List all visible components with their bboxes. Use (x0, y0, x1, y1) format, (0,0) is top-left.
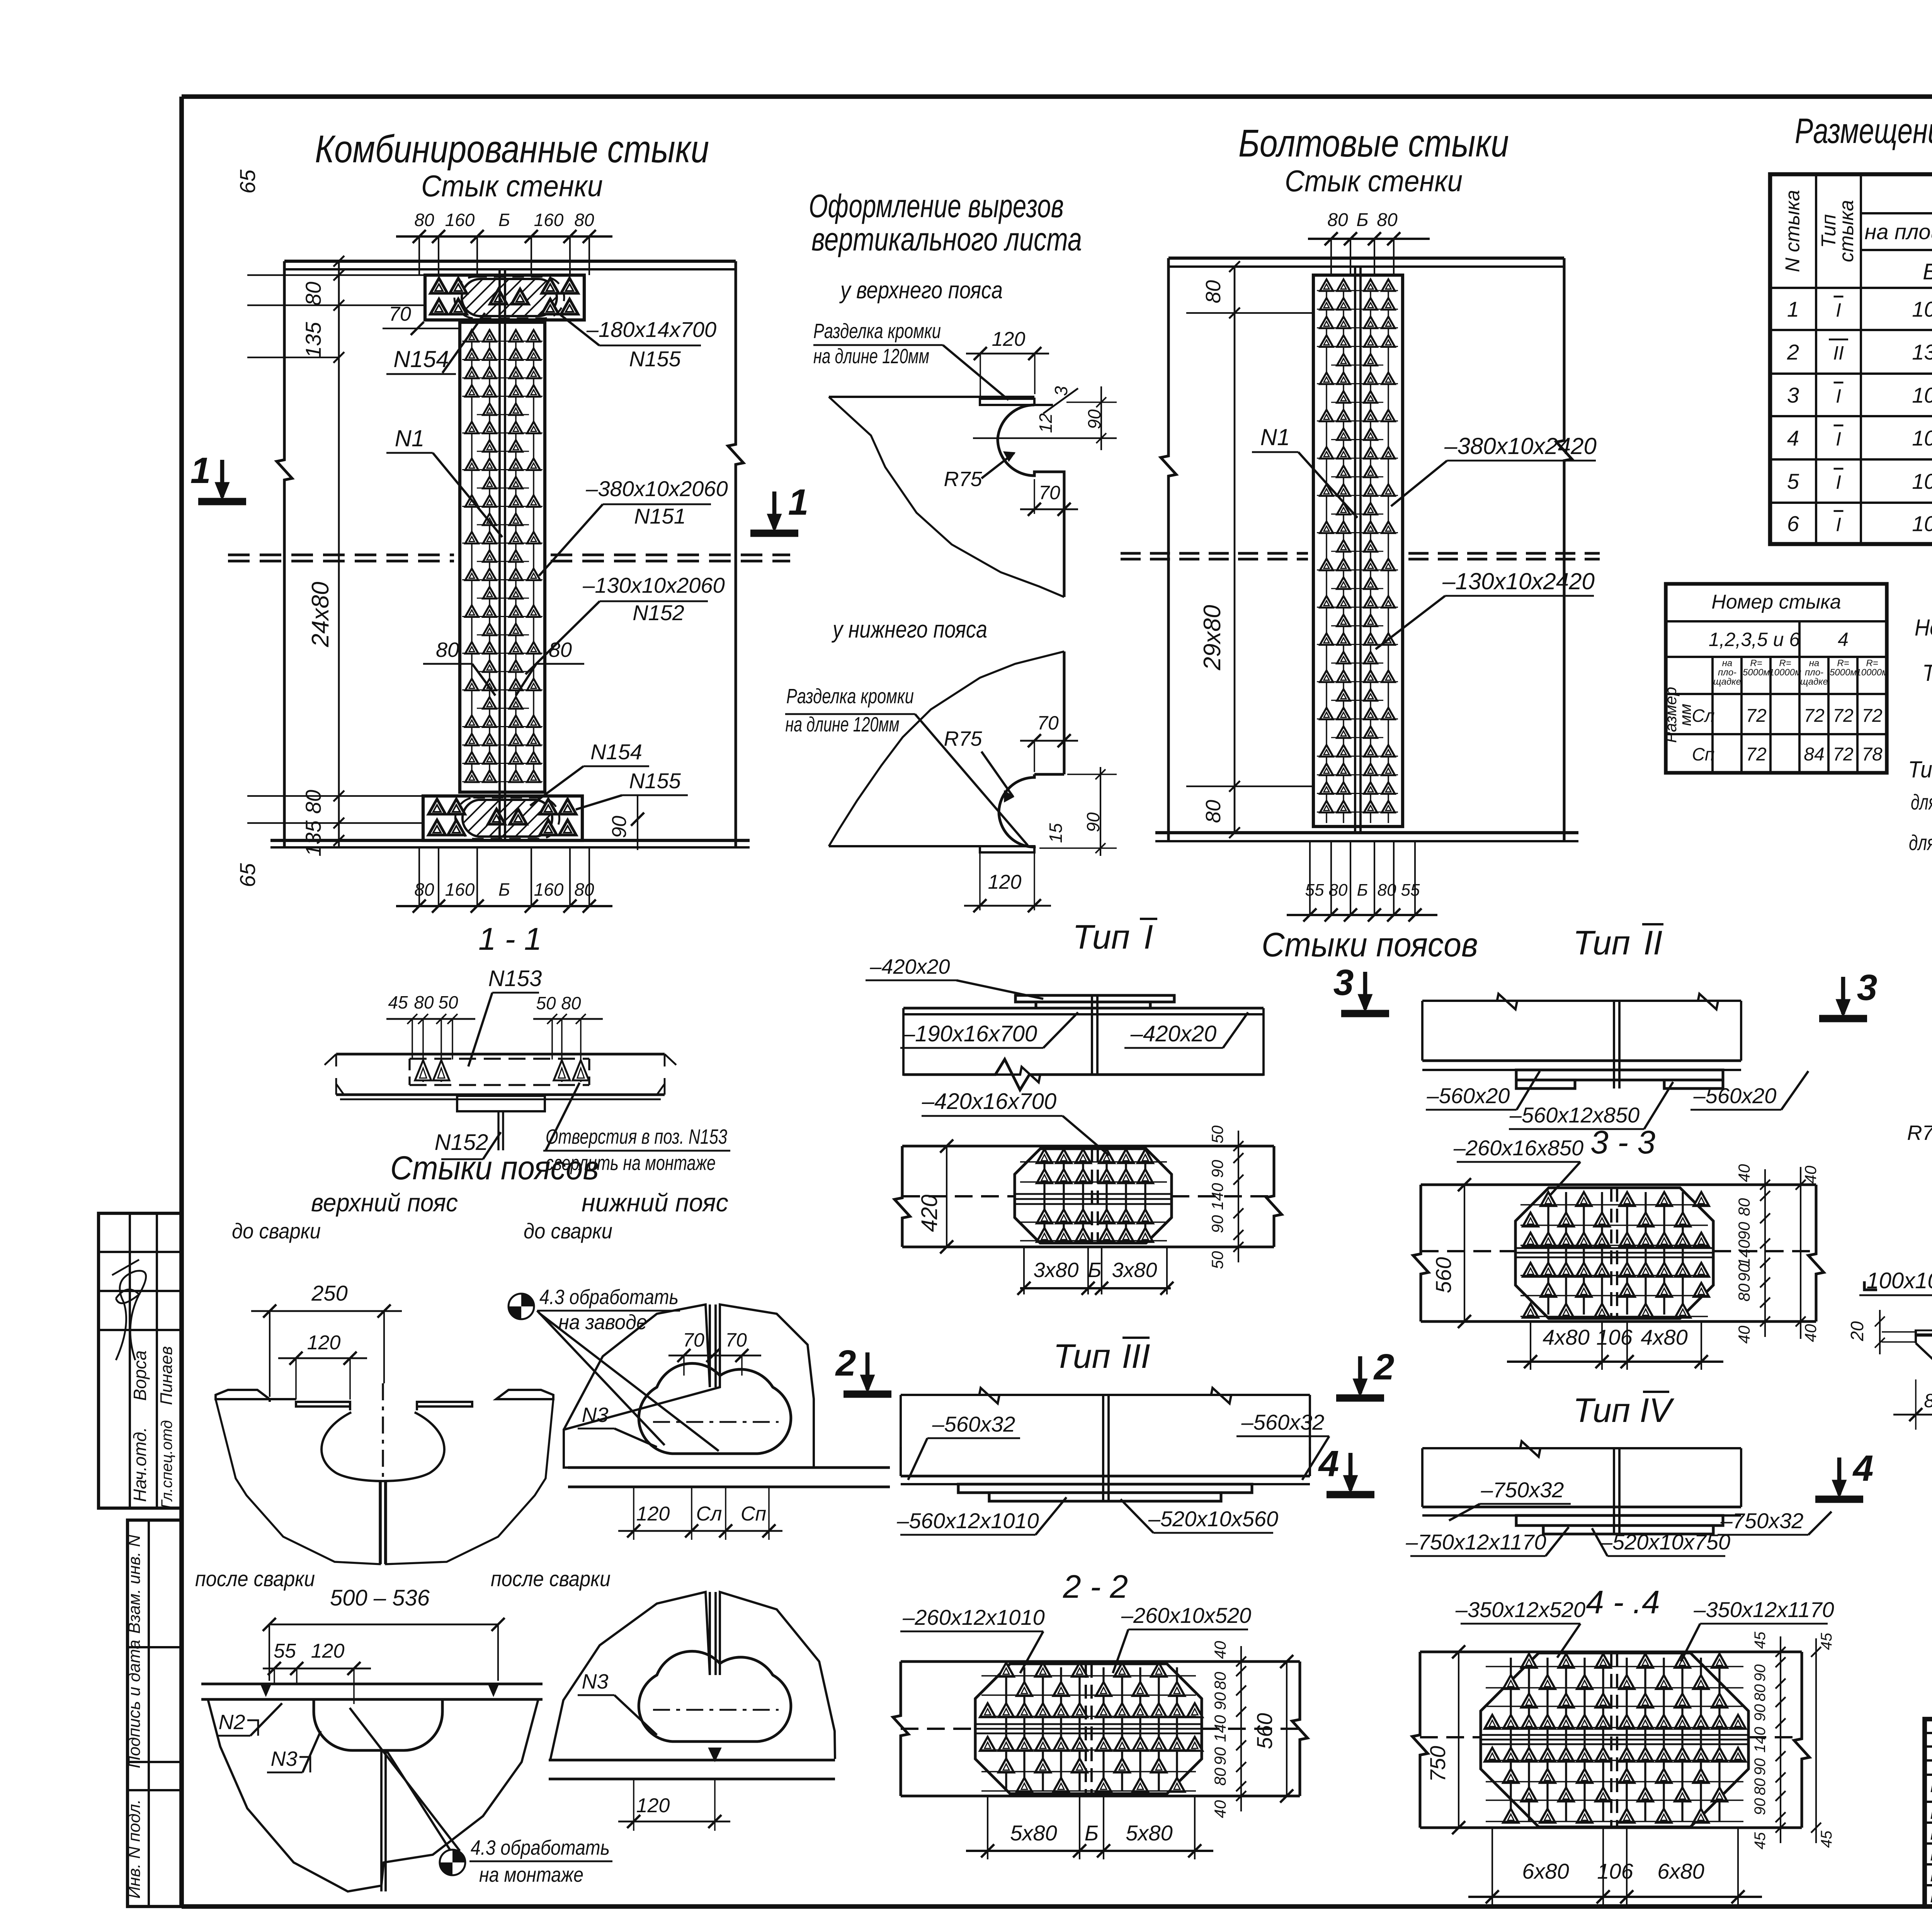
svg-text:80: 80 (436, 638, 459, 662)
3-3 plan: right dims (1764, 1169, 1766, 1337)
svg-text:500 – 536: 500 – 536 (330, 1585, 430, 1611)
svg-text:15: 15 (1046, 823, 1066, 843)
svg-text:70: 70 (725, 1329, 747, 1351)
svg-text:72: 72 (1746, 706, 1766, 726)
table: Номер стыка / Размер мм (1666, 584, 1887, 773)
svg-text:40: 40 (1211, 1641, 1229, 1659)
svg-text:45: 45 (388, 992, 408, 1012)
svg-text:90: 90 (1208, 1160, 1226, 1178)
svg-text:N3: N3 (582, 1670, 608, 1693)
lower belt before welding: drawing (564, 1304, 814, 1468)
svg-text:80: 80 (1211, 1767, 1229, 1786)
svg-text:72: 72 (1833, 706, 1853, 726)
svg-text:–420х16х700: –420х16х700 (922, 1089, 1056, 1114)
3-3 plan: bottom dims 4x80 106 4x80 (1507, 1361, 1723, 1363)
svg-text:70: 70 (389, 303, 411, 325)
svg-text:Б: Б (1356, 210, 1368, 230)
svg-text:R73: R73 (1907, 1121, 1932, 1145)
svg-text:5х80: 5х80 (1010, 1821, 1057, 1845)
svg-text:1 - 1: 1 - 1 (478, 922, 542, 957)
section marker 1 right (750, 530, 798, 537)
svg-text:Изм.: Изм. (1930, 1777, 1932, 1796)
svg-text:140: 140 (1211, 1715, 1229, 1742)
svg-text:1,2,3,5 и 6: 1,2,3,5 и 6 (1709, 629, 1800, 650)
svg-text:Сл: Сл (696, 1503, 722, 1525)
svg-text:на монтаже: на монтаже (479, 1863, 583, 1886)
svg-text:–380х10х2420: –380х10х2420 (1444, 433, 1597, 459)
svg-text:Стык стенки: Стык стенки (421, 169, 603, 203)
svg-text:–180х14х700: –180х14х700 (586, 317, 716, 342)
svg-text:80: 80 (1211, 1672, 1229, 1690)
svg-text:Нач.отд.: Нач.отд. (130, 1427, 150, 1502)
svg-text:4х80: 4х80 (1543, 1325, 1589, 1349)
svg-text:72: 72 (1746, 744, 1766, 765)
3-3 plan: bolt field (1520, 1192, 1709, 1318)
svg-text:R75: R75 (944, 727, 982, 750)
svg-text:50: 50 (438, 992, 458, 1012)
svg-text:–560х20: –560х20 (1693, 1083, 1777, 1108)
svg-text:у нижнего пояса: у нижнего пояса (832, 616, 987, 643)
svg-text:Б: Б (498, 879, 510, 900)
Тип I side view: beam and splice plates (903, 1059, 1264, 1090)
svg-text:Б: Б (1357, 881, 1368, 900)
svg-text:Ворса: Ворса (130, 1350, 150, 1401)
svg-text:N154: N154 (590, 740, 642, 764)
svg-text:Номер стыка: Номер стыка (1915, 615, 1932, 641)
svg-text:90: 90 (1735, 1222, 1753, 1240)
Тип I plan: bottom dims 3x80 Б 3x80 (1020, 1287, 1171, 1289)
svg-text:Тип: Тип (1053, 1337, 1111, 1375)
combined joint: web joint gap lines (498, 270, 501, 840)
2-2 plan view (901, 1660, 1300, 1663)
svg-text:4: 4 (1318, 1443, 1339, 1484)
svg-text:–190х16х700: –190х16х700 (902, 1021, 1037, 1046)
svg-text:106: 106 (1912, 297, 1932, 321)
svg-text:80: 80 (1202, 800, 1225, 823)
svg-text:Б: Б (1923, 259, 1932, 284)
svg-text:50: 50 (1208, 1125, 1226, 1143)
svg-text:80: 80 (561, 993, 581, 1013)
combined joint: beam outline with break lines (277, 261, 292, 847)
svg-text:Подпись и дата: Подпись и дата (125, 1640, 144, 1769)
svg-text:90: 90 (1752, 1664, 1769, 1682)
svg-text:50: 50 (1208, 1251, 1226, 1269)
svg-text:–520х10х750: –520х10х750 (1600, 1530, 1730, 1554)
4-4 plan: left dim 750 (1425, 1746, 1450, 1782)
svg-text:80: 80 (1735, 1198, 1753, 1216)
upper belt before welding: center joint (382, 1383, 384, 1479)
svg-text:–260х12х1010: –260х12х1010 (902, 1605, 1044, 1629)
section marker 4 right (1815, 1496, 1863, 1503)
svg-text:80: 80 (1327, 210, 1348, 230)
svg-text:80: 80 (301, 790, 325, 814)
section marker 4 left (1327, 1491, 1374, 1498)
svg-text:–560х20: –560х20 (1427, 1083, 1510, 1108)
svg-text:Гл. инж. пр: Гл. инж. пр (1930, 1804, 1932, 1823)
N153 detail: 20 dim (1847, 1321, 1867, 1342)
svg-text:I: I (1836, 299, 1841, 321)
upper cutout detail drawing (829, 396, 1034, 398)
svg-text:Тип: Тип (1573, 1391, 1630, 1429)
combined joint: bottom cover plate N154/N155 with slotted hatch (423, 796, 582, 840)
svg-text:40: 40 (1211, 1800, 1229, 1818)
svg-text:I: I (1836, 385, 1841, 407)
bolted joint: top dimension chain 80 Б 80 (1308, 238, 1430, 240)
section 1-1: splice bolts (422, 1060, 424, 1082)
svg-text:вертикального листа: вертикального листа (811, 221, 1082, 257)
svg-text:N1: N1 (395, 425, 425, 451)
svg-text:–260х10х520: –260х10х520 (1121, 1603, 1251, 1628)
svg-text:Тип: Тип (1573, 923, 1630, 962)
svg-text:78: 78 (1862, 744, 1883, 765)
svg-text:140: 140 (1752, 1727, 1769, 1753)
svg-text:до сварки: до сварки (524, 1219, 612, 1243)
svg-text:–420х20: –420х20 (869, 955, 950, 978)
svg-text:5: 5 (1787, 469, 1799, 493)
Тип I plan: center gap dashed (1091, 1149, 1093, 1243)
svg-text:–350х12х520: –350х12х520 (1455, 1597, 1585, 1622)
2-2 plan: right dims and 560 (1240, 1646, 1242, 1811)
svg-text:24х80: 24х80 (307, 582, 334, 648)
svg-text:2: 2 (1787, 340, 1799, 364)
combined joint: top cover plate N155 with slotted hatch (425, 275, 584, 320)
svg-text:72: 72 (1804, 706, 1824, 726)
svg-text:Оформление вырезов: Оформление вырезов (809, 188, 1064, 224)
Тип I plan: middle joint band (1015, 1193, 1172, 1195)
combined joint: web bolt field (462, 330, 543, 782)
svg-text:80: 80 (549, 638, 572, 662)
svg-text:для блоков 10.5м: для блоков 10.5м (1909, 830, 1932, 855)
svg-text:3х80: 3х80 (1033, 1259, 1078, 1282)
svg-text:–420х20: –420х20 (1130, 1021, 1217, 1046)
svg-text:250: 250 (311, 1281, 347, 1305)
svg-text:90: 90 (1211, 1692, 1229, 1710)
svg-text:Тип: Тип (1073, 918, 1130, 956)
svg-text:160: 160 (445, 879, 475, 900)
N153 detail: 80 dim left (1915, 1379, 1917, 1430)
bolted joint: left dimension line (1234, 267, 1236, 833)
svg-text:4: 4 (1852, 1448, 1874, 1489)
svg-text:50: 50 (536, 993, 556, 1013)
svg-text:на площадке: на площадке (1864, 219, 1932, 244)
svg-text:4: 4 (1787, 426, 1799, 450)
signature scribbles (116, 1271, 146, 1360)
svg-text:80: 80 (1752, 1778, 1769, 1796)
svg-text:II: II (1644, 923, 1663, 962)
combined joint: 70 dimension (383, 328, 460, 329)
bolted joint: beam outline with break lines (1161, 258, 1176, 841)
section marker 2 right (1336, 1395, 1384, 1402)
svg-text:45: 45 (1818, 1633, 1835, 1650)
svg-text:90: 90 (1752, 1758, 1769, 1776)
upper belt after welding: drawing (201, 1682, 543, 1685)
bolted joint: web splice plates (1313, 275, 1403, 827)
svg-text:3: 3 (1333, 962, 1354, 1003)
svg-text:до сварки: до сварки (232, 1219, 321, 1243)
svg-text:N3: N3 (582, 1403, 608, 1427)
upper belt before welding: weld oval (321, 1412, 444, 1481)
4-4 plan: bottom dims 6x80 106 6x80 (1468, 1896, 1762, 1898)
svg-text:70: 70 (683, 1329, 704, 1351)
svg-text:160: 160 (534, 210, 564, 230)
svg-text:45: 45 (1752, 1631, 1769, 1649)
N153 detail: angle label (1864, 1281, 1877, 1290)
svg-text:560: 560 (1252, 1713, 1277, 1749)
svg-text:Проверил: Проверил (1930, 1866, 1932, 1885)
svg-text:I: I (1836, 428, 1841, 450)
svg-text:80: 80 (574, 210, 594, 230)
section marker 2 left (844, 1391, 891, 1398)
svg-text:84: 84 (1804, 744, 1824, 765)
svg-text:80: 80 (1924, 1390, 1932, 1412)
section marker 3 right (1819, 1015, 1867, 1022)
svg-text:R75: R75 (944, 468, 982, 491)
svg-text:6: 6 (1787, 512, 1799, 536)
svg-text:45: 45 (1752, 1832, 1769, 1849)
Тип II side view (1422, 1000, 1741, 1002)
svg-text:у верхнего пояса: у верхнего пояса (839, 277, 1003, 304)
svg-text:Тип стыка: Тип стыка (1908, 757, 1932, 782)
svg-text:65: 65 (235, 863, 260, 887)
combined joint: web splice plates N151/N152 (460, 322, 545, 792)
svg-text:80: 80 (574, 879, 594, 900)
svg-text:N1: N1 (1260, 424, 1290, 450)
svg-text:I: I (1836, 514, 1841, 536)
svg-text:160: 160 (534, 879, 564, 900)
svg-text:N2: N2 (218, 1711, 245, 1734)
svg-text:70: 70 (1037, 712, 1059, 734)
svg-text:4: 4 (1838, 629, 1849, 650)
svg-text:Сп: Сп (1692, 744, 1715, 764)
svg-text:N153: N153 (488, 966, 542, 991)
svg-text:Б: Б (498, 210, 510, 230)
2-2 plan: bottom dims 5x80 Б 5x80 (966, 1850, 1213, 1852)
section 1-1: flange bar (336, 1053, 665, 1055)
Тип I plan: left dim 420 (946, 1146, 947, 1247)
combined joint: 90 dimension bottom right (637, 796, 638, 850)
Тип I plan view: beam with splice octagon (902, 1145, 1274, 1147)
lower belt after welding: drawing (550, 1592, 835, 1760)
svg-text:Б: Б (1085, 1821, 1099, 1845)
svg-text:N стыка: N стыка (1782, 190, 1804, 272)
svg-text:90: 90 (1752, 1704, 1769, 1721)
svg-text:90: 90 (1752, 1798, 1769, 1815)
svg-text:90: 90 (608, 816, 631, 838)
svg-text:420: 420 (917, 1195, 942, 1232)
svg-text:1: 1 (788, 482, 809, 523)
svg-text:120: 120 (636, 1503, 670, 1525)
svg-text:106: 106 (1912, 469, 1932, 493)
combined joint: left dimension lines (338, 261, 340, 847)
svg-text:1: 1 (1787, 297, 1799, 321)
svg-text:Гл.спец.отд: Гл.спец.отд (158, 1420, 175, 1509)
svg-text:120: 120 (988, 871, 1022, 893)
svg-text:IV: IV (1639, 1391, 1674, 1429)
bolted joint: beam axis dashed line (1121, 552, 1308, 554)
svg-text:135: 135 (301, 820, 325, 856)
svg-text:на длине 120мм: на длине 120мм (813, 345, 929, 368)
svg-text:55: 55 (274, 1640, 296, 1662)
bolted joint: web joint gap lines (1354, 267, 1356, 833)
svg-text:Б: Б (1088, 1259, 1101, 1282)
svg-text:2 - 2: 2 - 2 (1063, 1568, 1128, 1605)
4-4 plan: right dims (1780, 1636, 1781, 1843)
left stamp: upper signature block (99, 1213, 182, 1508)
svg-text:–130х10х2420: –130х10х2420 (1442, 568, 1595, 594)
svg-text:–560х32: –560х32 (1241, 1410, 1325, 1434)
svg-text:верхний пояс: верхний пояс (311, 1188, 458, 1217)
svg-text:–750х32: –750х32 (1481, 1478, 1564, 1502)
svg-text:29х80: 29х80 (1199, 605, 1226, 671)
svg-text:120: 120 (311, 1640, 345, 1662)
svg-text:4.3 обработать: 4.3 обработать (471, 1836, 610, 1859)
svg-text:Разделка кромки: Разделка кромки (786, 685, 914, 708)
svg-text:N154: N154 (393, 346, 449, 372)
svg-text:40: 40 (1801, 1324, 1820, 1342)
sheet frame (182, 94, 1932, 99)
svg-text:для блоков 21.0м: для блоков 21.0м (1911, 790, 1932, 814)
svg-text:80: 80 (1752, 1684, 1769, 1702)
svg-text:6х80: 6х80 (1657, 1859, 1704, 1883)
svg-text:40: 40 (1735, 1325, 1753, 1344)
svg-text:–260х16х850: –260х16х850 (1453, 1136, 1583, 1160)
section 1-1: hidden splice plate N153 dashed (410, 1058, 589, 1060)
svg-text:3: 3 (1787, 383, 1799, 407)
svg-text:–560х12х850: –560х12х850 (1509, 1103, 1639, 1127)
svg-text:Размещение рисок в накладках с: Размещение рисок в накладках с учетом ст… (1795, 111, 1932, 151)
svg-text:135: 135 (301, 321, 325, 358)
svg-text:–560х32: –560х32 (932, 1412, 1015, 1436)
svg-text:–750х32: –750х32 (1720, 1509, 1804, 1533)
3-3 plan: left dim 560 (1431, 1257, 1456, 1293)
svg-text:80: 80 (1735, 1283, 1753, 1301)
svg-text:–520х10х560: –520х10х560 (1148, 1507, 1278, 1531)
svg-text:560: 560 (1431, 1257, 1456, 1293)
Тип I plan: right dims 50 90 140 90 50 (1238, 1131, 1239, 1262)
svg-text:Стыки поясов: Стыки поясов (1262, 925, 1478, 964)
4-4 plan view (1420, 1650, 1802, 1653)
svg-text:Номер стыка: Номер стыка (1711, 591, 1841, 613)
svg-text:–560х12х1010: –560х12х1010 (896, 1509, 1039, 1533)
4-4 plan: bolt field (1485, 1654, 1746, 1823)
svg-text:на длине 120мм: на длине 120мм (786, 713, 900, 736)
title block: outer frame (1925, 1719, 1932, 1906)
lower cutout detail drawing (1063, 651, 1065, 774)
combined joint: top dimension chain 80 160 Б 160 80 (396, 235, 612, 238)
left stamp: lower attribute block (128, 1520, 182, 1906)
svg-text:N151: N151 (634, 504, 686, 528)
svg-text:Разраб.: Разраб. (1930, 1887, 1932, 1906)
svg-text:Разделка кромки: Разделка кромки (813, 320, 941, 343)
svg-text:Стыки поясов: Стыки поясов (390, 1150, 599, 1187)
svg-text:Взам. инв. N: Взам. инв. N (125, 1535, 144, 1634)
Тип III side view (901, 1394, 1310, 1396)
upper belt before welding: drawing (216, 1390, 270, 1399)
svg-text:20: 20 (1847, 1321, 1867, 1342)
svg-text:Сп: Сп (741, 1503, 766, 1525)
svg-text:140: 140 (1735, 1239, 1753, 1267)
svg-text:2: 2 (1373, 1347, 1395, 1388)
svg-text:N3: N3 (270, 1747, 297, 1770)
svg-text:I: I (1836, 471, 1841, 493)
Тип I plan: bolt field (1020, 1149, 1167, 1242)
svg-text:Стык стенки: Стык стенки (1285, 164, 1463, 198)
section marker 3 left (1341, 1010, 1389, 1017)
N153 detail: left angle piece (1915, 1330, 1932, 1332)
Тип IV side view (1422, 1447, 1741, 1449)
svg-text:90: 90 (1211, 1747, 1229, 1765)
svg-text:12: 12 (1036, 413, 1056, 433)
svg-text:160: 160 (445, 210, 475, 230)
svg-text:N155: N155 (629, 769, 681, 793)
combined joint: 24x80 label (307, 582, 334, 648)
combined joint: bottom dimension chain 80 160 Б 160 80 (396, 905, 612, 907)
svg-text:N155: N155 (629, 347, 681, 371)
svg-text:Отверстия в поз. N153: Отверстия в поз. N153 (546, 1125, 727, 1148)
svg-text:4х80: 4х80 (1641, 1325, 1687, 1349)
svg-text:3 - 3: 3 - 3 (1590, 1124, 1655, 1160)
svg-text:Комбинированные стыки: Комбинированные стыки (315, 128, 709, 171)
svg-text:55: 55 (1401, 881, 1420, 900)
svg-text:–750х12х1170: –750х12х1170 (1405, 1530, 1546, 1554)
svg-text:65: 65 (235, 169, 260, 194)
lower belt before welding: marks (509, 1294, 534, 1319)
svg-text:–380х10х2060: –380х10х2060 (585, 476, 728, 501)
svg-text:120: 120 (992, 328, 1026, 350)
svg-text:140: 140 (1208, 1183, 1226, 1210)
svg-text:90: 90 (1735, 1264, 1753, 1282)
svg-text:134: 134 (1912, 340, 1932, 364)
combined joint: beam axis dashed line (228, 553, 454, 556)
svg-text:после сварки: после сварки (195, 1566, 315, 1591)
svg-text:Болтовые стыки: Болтовые стыки (1238, 122, 1509, 165)
svg-text:–350х12х1170: –350х12х1170 (1693, 1597, 1834, 1622)
bolted joint: web bolt field staggered (1317, 279, 1398, 823)
svg-text:5х80: 5х80 (1126, 1821, 1172, 1845)
svg-text:II: II (1833, 342, 1844, 364)
svg-text:Нач.пр.гр.: Нач.пр.гр. (1930, 1825, 1932, 1844)
svg-text:80: 80 (1377, 210, 1398, 230)
svg-text:Пинаев: Пинаев (157, 1346, 176, 1405)
svg-text:нижний пояс: нижний пояс (582, 1188, 728, 1217)
svg-text:1: 1 (190, 450, 211, 491)
section 1-1: bottom plate N152 and web stub (457, 1096, 545, 1111)
3-3 plan view (1421, 1183, 1816, 1186)
svg-text:80: 80 (414, 992, 434, 1012)
svg-text:Тип стыка: Тип стыка (1922, 660, 1932, 686)
svg-text:100х10–800: 100х10–800 (1866, 1268, 1932, 1293)
svg-text:72: 72 (1862, 706, 1882, 726)
svg-text:I: I (1144, 918, 1153, 956)
svg-text:3х80: 3х80 (1112, 1259, 1157, 1282)
svg-text:на заводе: на заводе (558, 1311, 647, 1334)
svg-text:106: 106 (1912, 426, 1932, 450)
svg-text:–130х10х2060: –130х10х2060 (582, 573, 724, 597)
svg-text:4 - .4: 4 - .4 (1586, 1584, 1660, 1620)
svg-text:120: 120 (307, 1332, 341, 1354)
svg-text:Н.контр.: Н.контр. (1930, 1845, 1932, 1864)
section marker 1 left (198, 498, 246, 505)
svg-text:Сл: Сл (1692, 706, 1714, 726)
bolted joint: bottom dimension chain 55 80 Б 80 55 (1287, 914, 1437, 916)
svg-text:750: 750 (1425, 1746, 1450, 1782)
svg-text:после сварки: после сварки (491, 1566, 611, 1591)
svg-text:106: 106 (1912, 512, 1932, 536)
svg-text:72: 72 (1833, 744, 1853, 765)
svg-text:N152: N152 (633, 600, 684, 625)
svg-text:Инв. N подл.: Инв. N подл. (125, 1799, 144, 1898)
svg-text:6х80: 6х80 (1522, 1859, 1569, 1883)
